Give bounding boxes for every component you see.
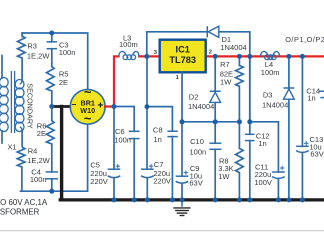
svg-text:2E: 2E [59, 78, 68, 87]
svg-text:1n: 1n [307, 94, 315, 103]
svg-text:C10: C10 [190, 137, 204, 146]
svg-text:1n: 1n [258, 139, 266, 148]
svg-text:O/P1,O/P2,O: O/P1,O/P2,O [285, 35, 324, 44]
svg-text:IC1: IC1 [176, 45, 190, 55]
svg-text:100m: 100m [261, 68, 280, 77]
svg-text:220V: 220V [90, 177, 108, 186]
svg-text:2E: 2E [37, 129, 46, 138]
svg-text:1N4004: 1N4004 [262, 100, 288, 109]
svg-text:R3: R3 [27, 42, 37, 51]
svg-text:−: − [72, 99, 77, 109]
svg-text:1N4004: 1N4004 [220, 43, 246, 52]
svg-text:1W: 1W [218, 172, 230, 181]
svg-text:C8: C8 [153, 125, 163, 134]
svg-text:1E,2W: 1E,2W [27, 156, 50, 165]
svg-text:100V: 100V [254, 178, 272, 187]
svg-text:63V: 63V [310, 149, 323, 158]
svg-text:1n: 1n [153, 135, 161, 144]
svg-text:220V: 220V [153, 177, 171, 186]
svg-text:TL783: TL783 [169, 55, 196, 65]
svg-text:2: 2 [209, 50, 212, 56]
svg-text:TO 60V AC,1A: TO 60V AC,1A [0, 198, 48, 207]
svg-text:C7: C7 [154, 160, 164, 169]
svg-text:R7: R7 [220, 60, 230, 69]
svg-text:1E,2W: 1E,2W [27, 52, 50, 61]
svg-text:~: ~ [84, 84, 92, 99]
svg-text:SECONDARY: SECONDARY [26, 83, 35, 129]
svg-text:100m: 100m [119, 40, 138, 49]
svg-text:D2: D2 [189, 93, 199, 102]
svg-text:NSFORMER: NSFORMER [0, 208, 40, 217]
svg-text:100n: 100n [114, 136, 131, 145]
svg-text:100n: 100n [59, 48, 76, 57]
svg-text:1W: 1W [220, 78, 232, 87]
svg-text:+: + [97, 100, 103, 112]
svg-text:R4: R4 [28, 147, 38, 156]
svg-text:X1: X1 [8, 143, 17, 152]
svg-text:100n: 100n [190, 147, 207, 156]
svg-text:100n: 100n [30, 175, 47, 184]
svg-text:~: ~ [84, 111, 92, 126]
svg-text:63V: 63V [189, 178, 202, 187]
svg-text:D3: D3 [263, 91, 273, 100]
svg-text:1N4004: 1N4004 [188, 102, 214, 111]
